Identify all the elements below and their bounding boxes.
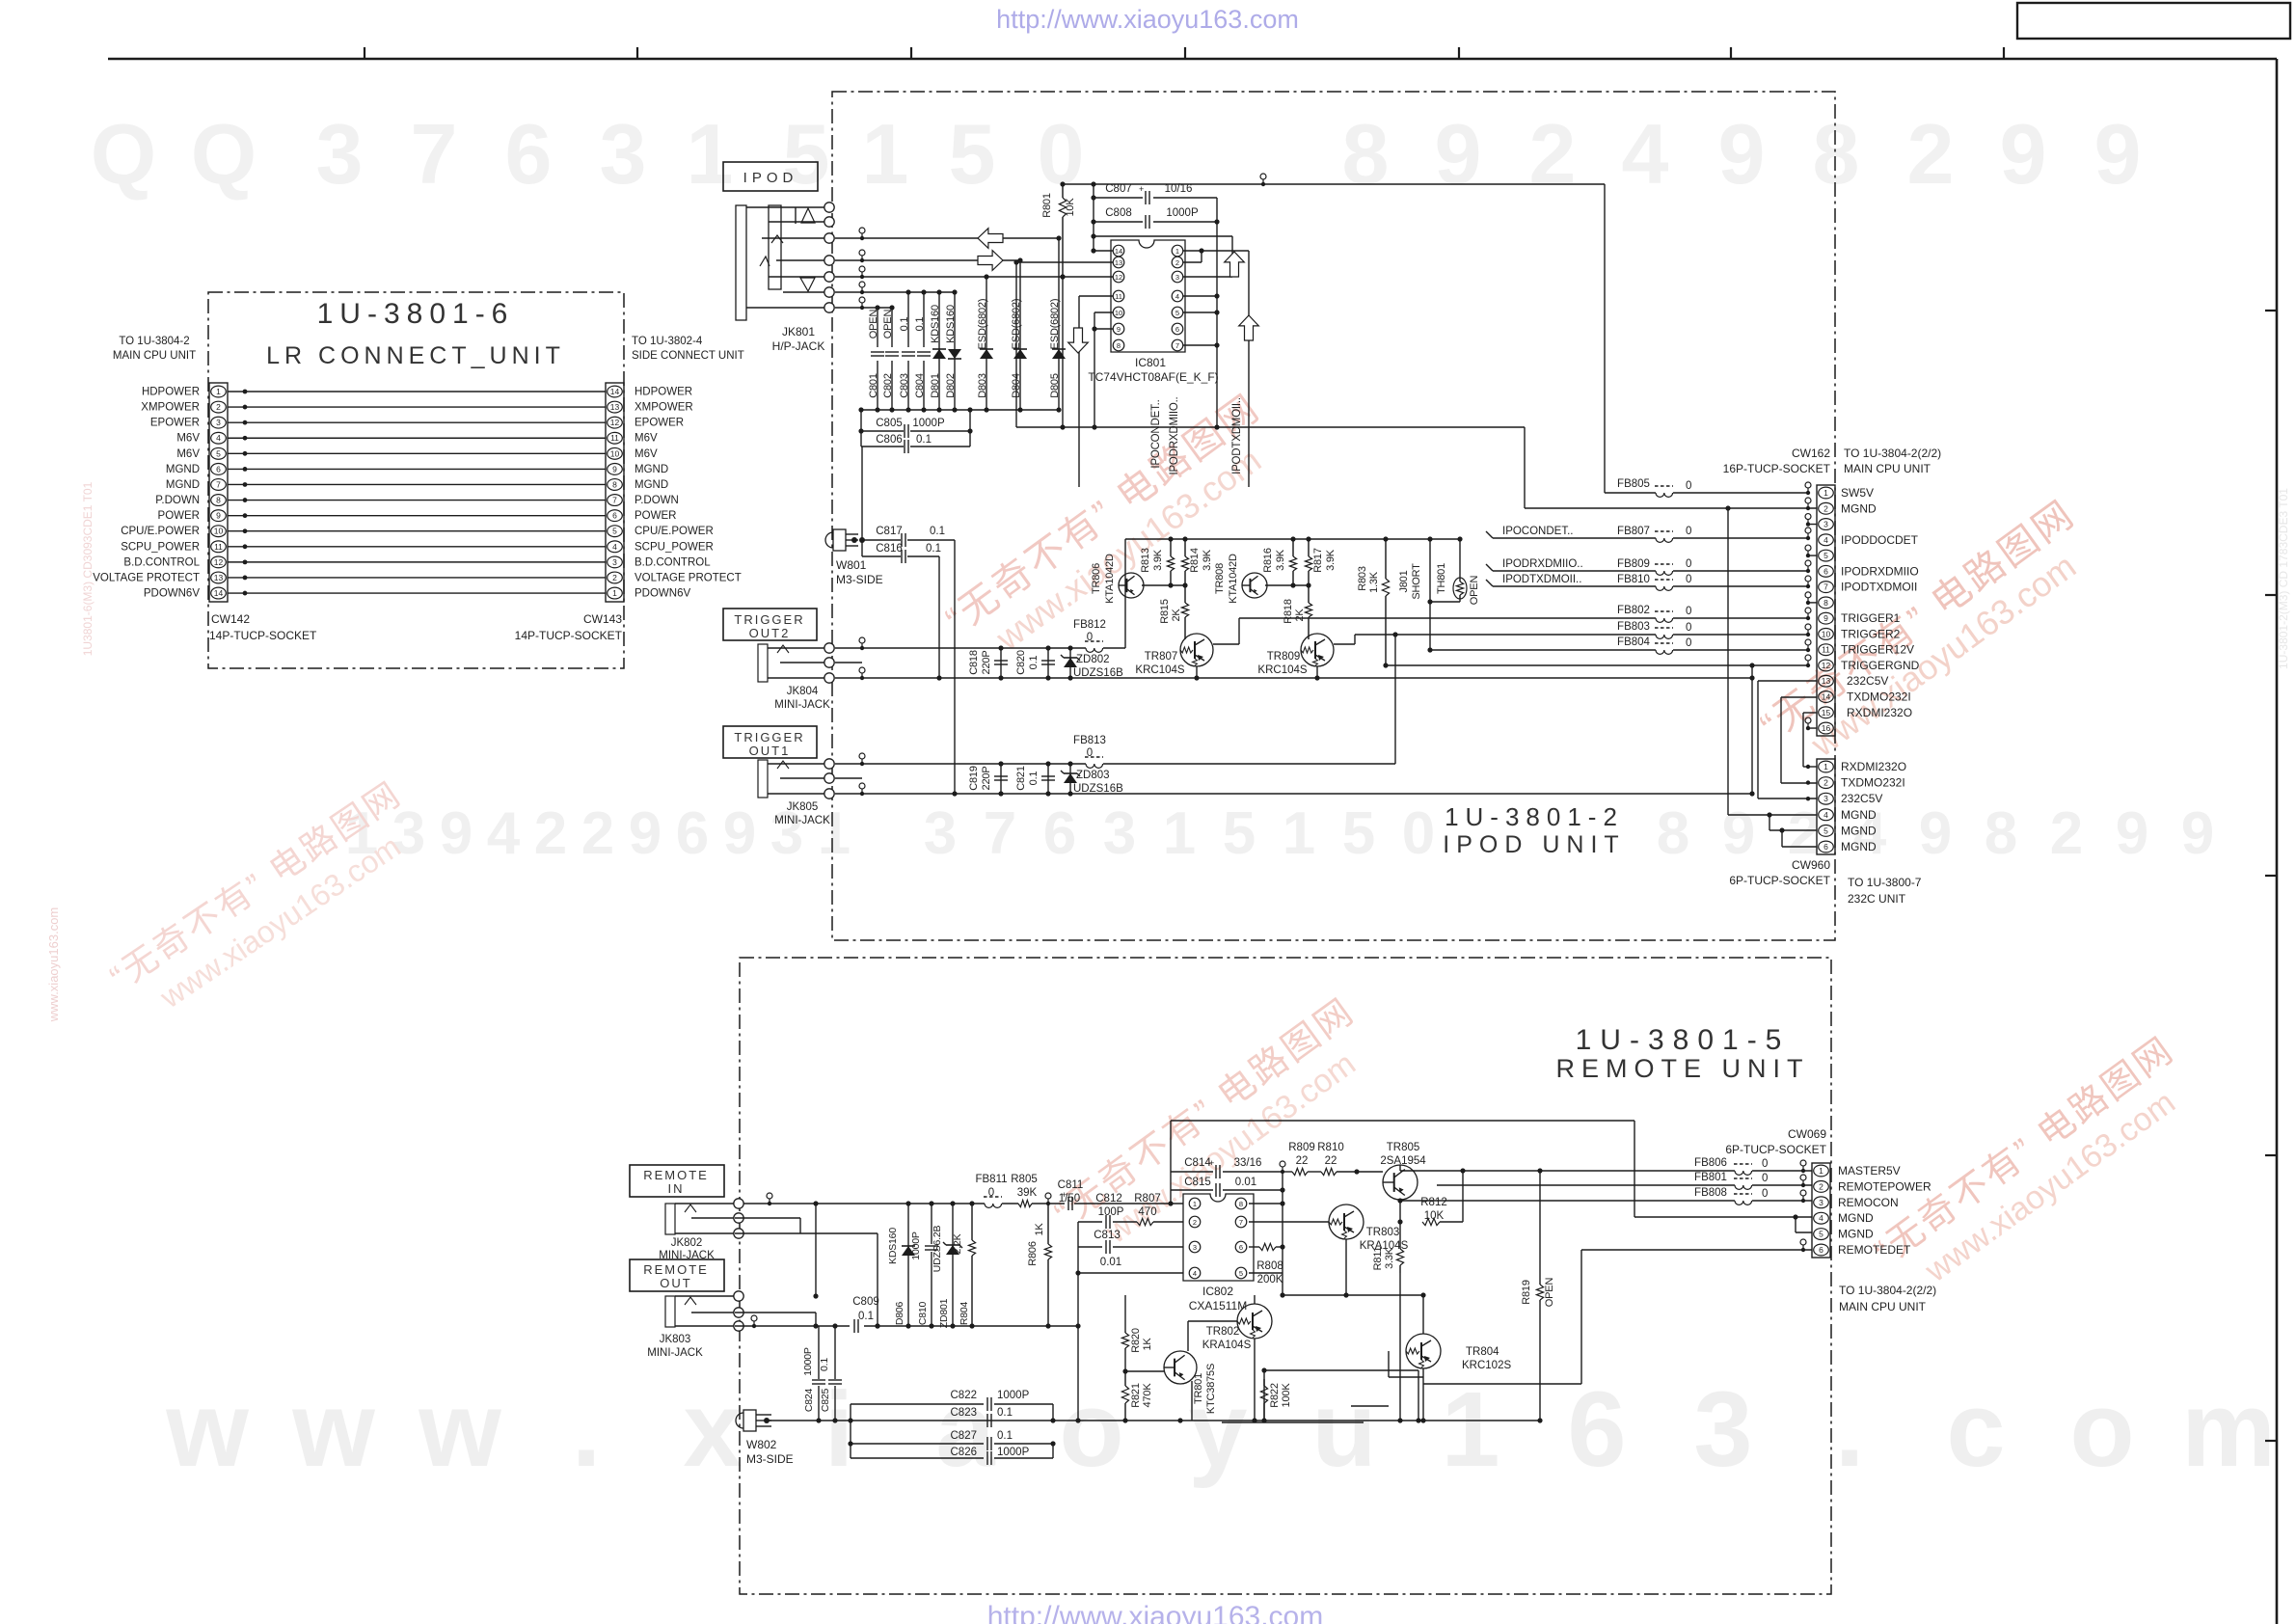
capacitor C803 0.1 (907, 292, 909, 347)
svg-text:5: 5 (1823, 551, 1828, 560)
wire MGND down to CW960 (1727, 508, 1729, 815)
svg-text:OPEN: OPEN (882, 310, 894, 339)
svg-text:1: 1 (1175, 247, 1179, 256)
wire IC801 pin10 (1094, 311, 1113, 313)
svg-text:5: 5 (1823, 826, 1828, 835)
svg-text:LR CONNECT_UNIT: LR CONNECT_UNIT (266, 342, 565, 369)
svg-text:5: 5 (1819, 1230, 1823, 1239)
svg-text:CW069: CW069 (1788, 1127, 1826, 1141)
svg-text:1000P: 1000P (912, 418, 945, 429)
wire remote out tip link (815, 1204, 817, 1296)
svg-text:11: 11 (610, 433, 619, 443)
ferrite bead FB810 (1656, 586, 1673, 590)
capacitor C814 33/16 (1170, 1172, 1172, 1204)
svg-text:10/16: 10/16 (1165, 183, 1193, 195)
pin 2 CW162 (1819, 502, 1834, 514)
diode D801 KDS160 (938, 292, 940, 347)
pin 4 CW960 (1819, 809, 1834, 821)
pin 4 IC802 (1189, 1267, 1201, 1279)
svg-text:P.DOWN: P.DOWN (155, 495, 200, 506)
svg-text:MINI-JACK: MINI-JACK (774, 815, 830, 826)
label box REMOTE OUT (630, 1259, 724, 1291)
svg-text:PDOWN6V: PDOWN6V (635, 588, 690, 600)
capacitor C806 0.1 (861, 446, 904, 447)
svg-text:TR807: TR807 (1145, 651, 1178, 663)
svg-text:5: 5 (783, 106, 830, 202)
pin 3 CW142 (211, 417, 227, 428)
pin 9 IC801 (1113, 323, 1124, 335)
svg-text:1: 1 (818, 800, 851, 867)
svg-text:6: 6 (1823, 842, 1828, 852)
svg-text:1U-3801-2: 1U-3801-2 (1445, 802, 1624, 831)
jack JK801 pin at y=287 (824, 272, 834, 282)
pin 16 CW162 (1819, 722, 1834, 734)
svg-text:ZD802: ZD802 (1076, 654, 1110, 665)
svg-text:C806: C806 (876, 434, 903, 446)
transistor TR801 KTC3875S (1164, 1351, 1197, 1384)
svg-text:3: 3 (1823, 794, 1828, 803)
svg-text:C808: C808 (1105, 207, 1132, 219)
svg-text:1: 1 (1283, 800, 1315, 867)
resistor R809 22 (1283, 1171, 1292, 1173)
pin 13 CW162 (1819, 675, 1834, 687)
wire net IPODTXDMOII vertical (1248, 251, 1250, 487)
svg-text:CXA1511M: CXA1511M (1189, 1299, 1247, 1313)
wire MGND jog pin6 (1781, 830, 1783, 847)
svg-text:1: 1 (1819, 1166, 1823, 1176)
wire IC802 pin5 row (1249, 1272, 1283, 1274)
svg-text:2: 2 (216, 402, 221, 412)
resistor R818 2K (1308, 585, 1310, 603)
svg-text:CW960: CW960 (1792, 858, 1830, 872)
svg-text:FB812: FB812 (1073, 619, 1106, 631)
jack JK801 pin at y=230 (824, 217, 834, 227)
wire TXDMO232I from pin14 (1781, 696, 1817, 698)
svg-text:MGND: MGND (166, 464, 200, 475)
wire trigger out2 ground y=703 (835, 677, 1752, 679)
svg-text:IPODRXDMIIO..: IPODRXDMIIO.. (1502, 558, 1583, 570)
jack JK801 pin at y=319 (824, 303, 834, 312)
svg-text:http://www.xiaoyu163.com: http://www.xiaoyu163.com (996, 5, 1299, 34)
pin 14 CW142 (211, 587, 227, 599)
wire TR801 base (1125, 1370, 1164, 1372)
svg-text:9: 9 (723, 800, 756, 867)
capacitor C802 OPEN (891, 308, 893, 347)
svg-text:CW143: CW143 (583, 612, 622, 626)
pin 3 CW162 (1819, 519, 1834, 530)
ferrite bead FB812 0 (1086, 648, 1103, 652)
svg-text:ZD803: ZD803 (1076, 770, 1110, 781)
svg-text:3: 3 (1193, 1243, 1197, 1252)
svg-text:16P-TUCP-SOCKET: 16P-TUCP-SOCKET (1723, 462, 1831, 475)
svg-text:C802: C802 (882, 373, 894, 398)
svg-text:0.1: 0.1 (997, 1430, 1013, 1442)
capacitor C826 1000P (851, 1457, 984, 1459)
resistor R805 39K (1018, 1200, 1032, 1206)
svg-text:6: 6 (216, 464, 221, 474)
svg-text:TRIGGER12V: TRIGGER12V (1841, 643, 1914, 657)
svg-text:100P: 100P (1098, 1206, 1124, 1218)
svg-text:4: 4 (1823, 535, 1828, 545)
label box REMOTE IN (630, 1165, 724, 1197)
svg-text:OPEN: OPEN (868, 310, 879, 339)
svg-text:0.01: 0.01 (1100, 1257, 1121, 1268)
connector CW143 14P-TUCP-SOCKET body (606, 383, 624, 602)
svg-text:0: 0 (1402, 800, 1435, 867)
wire TR804 emitter (1422, 1368, 1424, 1421)
svg-text:FB801: FB801 (1694, 1172, 1727, 1183)
svg-text:9: 9 (2000, 106, 2047, 202)
svg-text:MAIN CPU UNIT: MAIN CPU UNIT (1844, 462, 1931, 475)
pin 13 IC801 (1113, 257, 1124, 268)
svg-text:11: 11 (1115, 292, 1122, 301)
pin 3 CW143 (608, 556, 623, 568)
wire TR803 bottom to y1343 (1345, 1239, 1347, 1295)
wire right vertical x=1330 (1282, 1172, 1283, 1273)
capacitor C819 220P (1000, 764, 1002, 794)
svg-text:MGND: MGND (1841, 501, 1877, 515)
svg-text:IPODTXDMOII..: IPODTXDMOII.. (1231, 397, 1243, 474)
svg-text:1U3801-6(M3) CD3093CDE1 T01: 1U3801-6(M3) CD3093CDE1 T01 (81, 481, 95, 656)
wire LR pin row 6 (228, 468, 606, 470)
svg-text:JK804: JK804 (787, 686, 819, 697)
connector CW960 6P-TUCP-SOCKET body (1817, 759, 1835, 854)
junction dots on jack rows (984, 274, 988, 279)
capacitor C817 0.1 (862, 539, 901, 541)
pin 7 CW142 (211, 479, 227, 491)
pin 11 CW142 (211, 541, 227, 553)
svg-text:MAIN CPU UNIT: MAIN CPU UNIT (113, 350, 196, 362)
jack JK801 tip triangle (801, 208, 815, 223)
svg-text:C820: C820 (1015, 650, 1027, 675)
svg-text:0.1: 0.1 (858, 1311, 874, 1322)
svg-text:TR805: TR805 (1387, 1142, 1420, 1153)
resistor R820 1K (1124, 1295, 1126, 1331)
svg-text:1: 1 (1823, 762, 1828, 771)
svg-text:14: 14 (610, 387, 620, 396)
resistor R811 3.3K (1399, 1200, 1401, 1242)
jack JK801 pin at y=270 (824, 256, 834, 265)
svg-text:R818: R818 (1283, 599, 1294, 624)
svg-text:OPEN: OPEN (1469, 576, 1480, 606)
svg-text:MGND: MGND (1841, 824, 1877, 837)
pin 6 CW960 (1819, 841, 1834, 853)
pin 10 CW142 (211, 526, 227, 537)
svg-text:MASTER5V: MASTER5V (1838, 1164, 1901, 1177)
svg-text:TO 1U-3804-2(2/2): TO 1U-3804-2(2/2) (1844, 447, 1941, 460)
svg-text:2: 2 (1788, 800, 1821, 867)
pin 6 IC801 (1172, 323, 1183, 335)
svg-text:CW142: CW142 (211, 612, 250, 626)
arrow up right of IC801 pin1 (1225, 252, 1245, 277)
svg-text:C812: C812 (1095, 1193, 1122, 1204)
svg-text:TRIGGERGND: TRIGGERGND (1841, 659, 1920, 672)
wire MASTER5V row FB806 (1735, 1170, 1749, 1172)
jack JK801 pin at y=215 (824, 203, 834, 212)
wire C812 corner vertical x=1118 (1077, 1222, 1079, 1421)
arrow down near IC801 (1068, 328, 1089, 353)
svg-text:TXDMO232I: TXDMO232I (1841, 776, 1905, 790)
svg-text:M6V: M6V (635, 433, 658, 445)
svg-text:FB806: FB806 (1694, 1157, 1727, 1169)
svg-text:R815: R815 (1159, 599, 1171, 624)
pin 5 CW142 (211, 447, 227, 459)
svg-text:13: 13 (1822, 676, 1831, 686)
svg-text:HDPOWER: HDPOWER (635, 387, 692, 398)
wire MGND row to pin4 (1171, 1120, 1634, 1122)
svg-text:TR801: TR801 (1193, 1373, 1204, 1404)
svg-text:R820: R820 (1130, 1328, 1142, 1353)
label box IPOD (723, 162, 818, 191)
svg-text:JK801: JK801 (782, 325, 815, 338)
diode D805 ESD(6802) (1058, 238, 1060, 347)
svg-text:D803: D803 (977, 373, 988, 398)
arrow left on row 247 (978, 229, 1003, 249)
svg-text:10K: 10K (1424, 1210, 1445, 1222)
wire jack row y=287 (835, 276, 1063, 278)
svg-text:3: 3 (1103, 800, 1136, 867)
svg-text:220P: 220P (981, 651, 992, 675)
svg-text:MGND: MGND (1841, 808, 1877, 822)
svg-text:13: 13 (610, 402, 620, 412)
jack JK801 switch chevron 2 (760, 257, 770, 266)
svg-text:SCPU_POWER: SCPU_POWER (635, 541, 714, 553)
svg-text:3: 3 (924, 800, 957, 867)
jack JK801 pin at y=247 (824, 233, 834, 243)
svg-text:2: 2 (534, 800, 567, 867)
wire MASTER5V rail (1400, 1170, 1735, 1172)
svg-text:KRC102S: KRC102S (1462, 1360, 1511, 1371)
connector CW069 6P-TUCP-SOCKET body (1812, 1163, 1830, 1258)
wire jack row y=303 (835, 291, 955, 293)
svg-text:W802: W802 (746, 1438, 777, 1451)
svg-text:R813: R813 (1140, 548, 1151, 573)
pin 3 IC801 (1172, 271, 1183, 283)
svg-text:1.3K: 1.3K (1368, 571, 1380, 593)
svg-text:0.1: 0.1 (930, 526, 945, 537)
svg-text:0: 0 (1686, 637, 1691, 649)
svg-text:9: 9 (629, 800, 662, 867)
jack JK804 MINI-JACK (758, 644, 768, 682)
resistor R815 2K (1184, 585, 1186, 603)
wire SW5V route from top rail (1604, 184, 1606, 493)
wire LR pin row 14 (228, 592, 606, 594)
svg-text:7: 7 (1175, 341, 1179, 350)
svg-text:EPOWER: EPOWER (150, 418, 200, 429)
ferrite bead FB811 0 (985, 1204, 1002, 1207)
svg-text:4: 4 (1622, 106, 1669, 202)
pin 5 CW069 (1814, 1229, 1829, 1240)
wire vertical from C806 to W801 row (861, 447, 863, 540)
svg-text:2SA1954: 2SA1954 (1380, 1155, 1426, 1167)
svg-text:C816: C816 (876, 543, 903, 555)
svg-text:1000P: 1000P (997, 1390, 1030, 1401)
svg-text:XMPOWER: XMPOWER (141, 402, 200, 414)
svg-text:D805: D805 (1049, 373, 1061, 398)
svg-text:TRIGGER2: TRIGGER2 (1841, 627, 1901, 640)
pin 1 IC802 (1189, 1198, 1201, 1209)
transistor TR808 KTA1042D (1242, 573, 1267, 598)
svg-text:C809: C809 (852, 1296, 879, 1308)
svg-text:w: w (418, 1370, 501, 1489)
svg-text:7: 7 (612, 496, 617, 505)
transistor TR805 2SA1954 (1383, 1165, 1418, 1200)
svg-text:4: 4 (487, 800, 521, 867)
pin 14 CW143 (608, 386, 623, 397)
capacitor C815 0.01 (1171, 1189, 1213, 1191)
svg-text:2: 2 (1175, 258, 1179, 267)
svg-text:0: 0 (1087, 632, 1093, 643)
svg-text:7: 7 (1823, 582, 1828, 592)
svg-text:http://www.xiaoyu163.com: http://www.xiaoyu163.com (987, 1601, 1324, 1624)
capacitor C820 0.1 (1047, 648, 1049, 678)
svg-text:232C5V: 232C5V (1847, 674, 1888, 688)
wire IC801 pin9 (1094, 328, 1113, 330)
svg-text:m: m (2181, 1370, 2276, 1489)
svg-text:0: 0 (1762, 1158, 1768, 1170)
svg-text:470K: 470K (1142, 1383, 1153, 1408)
pin 11 CW162 (1819, 644, 1834, 656)
wire IC802 pin7 to TR803 (1249, 1221, 1329, 1223)
svg-text:R812: R812 (1420, 1197, 1447, 1208)
svg-text:1: 1 (612, 588, 617, 598)
wire jack row y=247 (835, 237, 1059, 239)
svg-text:TR808: TR808 (1214, 563, 1226, 594)
wire R801 vertical to ground rail (1062, 277, 1064, 427)
wire TRIGGER2 row FB803 (1355, 634, 1656, 636)
svg-text:IPOCONDET..: IPOCONDET.. (1150, 399, 1162, 468)
wire TR802 emitter (1254, 1339, 1256, 1421)
transistor TR804 KRC102S (1406, 1334, 1441, 1368)
wire LR pin row 3 (228, 421, 606, 423)
svg-text:KDS160: KDS160 (945, 305, 957, 343)
svg-text:8: 8 (1239, 1200, 1243, 1208)
pin 8 IC802 (1235, 1198, 1247, 1209)
svg-text:100K: 100K (1281, 1383, 1292, 1408)
pin 12 IC801 (1113, 271, 1124, 283)
svg-text:6: 6 (1819, 1245, 1823, 1255)
pin 8 CW162 (1819, 597, 1834, 609)
svg-text:TO 1U-3804-2(2/2): TO 1U-3804-2(2/2) (1839, 1284, 1936, 1297)
svg-text:6: 6 (1043, 800, 1076, 867)
svg-text:9: 9 (1919, 800, 1952, 867)
svg-text:6P-TUCP-SOCKET: 6P-TUCP-SOCKET (1729, 874, 1830, 887)
pin 5 CW143 (608, 526, 623, 537)
svg-text:C823: C823 (951, 1407, 978, 1419)
svg-text:4: 4 (612, 542, 617, 552)
frame top border line (108, 58, 2277, 61)
resistor R821 470K (1124, 1371, 1126, 1386)
svg-text:C814: C814 (1184, 1157, 1211, 1169)
svg-text:12: 12 (214, 557, 224, 567)
pin 6 CW142 (211, 464, 227, 475)
svg-text:KRC104S: KRC104S (1135, 664, 1184, 676)
svg-text:FB804: FB804 (1617, 636, 1650, 648)
svg-text:C821: C821 (1015, 766, 1027, 791)
label box TRIGGER OUT2 (723, 609, 817, 640)
wire net row IPOCONDET.. (1486, 531, 1493, 538)
wire IC801 pin4 (1183, 295, 1217, 297)
svg-text:R806: R806 (1027, 1241, 1039, 1266)
svg-text:B.D.CONTROL: B.D.CONTROL (635, 556, 711, 568)
svg-text:11: 11 (1822, 645, 1830, 655)
pin 3 CW069 (1814, 1197, 1829, 1208)
capacitor C821 0.1 (1047, 764, 1049, 794)
svg-text:R814: R814 (1189, 548, 1201, 573)
svg-text:1000P: 1000P (1166, 207, 1199, 219)
svg-text:C818: C818 (968, 650, 980, 675)
pin 4 CW069 (1814, 1212, 1829, 1224)
svg-text:C805: C805 (876, 418, 903, 429)
pin 5 IC802 (1235, 1267, 1247, 1279)
svg-text:u: u (1311, 1370, 1376, 1489)
svg-text:P.DOWN: P.DOWN (635, 495, 679, 506)
jack JK801 pin at y=303 (824, 287, 834, 297)
svg-text:M6V: M6V (176, 433, 200, 445)
svg-text:IN: IN (668, 1181, 685, 1196)
wire top rail y=191 (1063, 183, 1605, 185)
svg-text:ESD(6802): ESD(6802) (977, 299, 988, 350)
wire LR pin row 4 (228, 437, 606, 439)
svg-text:15: 15 (1822, 708, 1831, 717)
svg-text:TR809: TR809 (1267, 651, 1301, 663)
svg-text:MINI-JACK: MINI-JACK (647, 1347, 703, 1359)
stub pins CW162 unused (1805, 514, 1811, 520)
stub dots CW960 pins (1806, 765, 1810, 769)
wire x=1330 down to y=1343 row (1282, 1273, 1283, 1295)
svg-text:0.1: 0.1 (819, 1358, 830, 1371)
svg-text:2: 2 (581, 800, 614, 867)
pin 12 CW162 (1819, 660, 1834, 671)
svg-text:5: 5 (1223, 800, 1256, 867)
wire IC801 pin12 (1063, 276, 1113, 278)
jumper J801 SHORT (1429, 539, 1431, 650)
wire IC801 pin5 (1183, 311, 1217, 313)
svg-text:.: . (1835, 1370, 1865, 1489)
svg-text:7: 7 (411, 106, 458, 202)
wire C816 down to trigger out2 row (938, 556, 940, 678)
svg-text:Q: Q (191, 106, 257, 202)
capacitor C823 0.1 (986, 1414, 988, 1427)
svg-text:9: 9 (2116, 800, 2148, 867)
pin 9 CW162 (1819, 612, 1834, 624)
svg-text:3: 3 (316, 106, 364, 202)
svg-text:1000P: 1000P (997, 1447, 1030, 1458)
svg-text:o: o (1059, 1370, 1123, 1489)
frame right border line (2276, 59, 2279, 1624)
svg-text:i: i (824, 1370, 854, 1489)
svg-text:FB813: FB813 (1073, 735, 1106, 746)
svg-text:0: 0 (1686, 480, 1691, 492)
svg-text:0.1: 0.1 (1028, 656, 1040, 670)
svg-text:M6V: M6V (176, 448, 200, 460)
unit box 1U-3801-2 IPOD UNIT (dash-dot border) (832, 92, 1835, 940)
capacitor C818 220P (1000, 648, 1002, 678)
resistor R812 10K (1222, 1421, 1364, 1423)
svg-text:2: 2 (612, 573, 617, 582)
svg-text:+: + (1139, 184, 1144, 194)
svg-text:5: 5 (612, 527, 617, 536)
pin 2 IC802 (1189, 1216, 1201, 1228)
svg-text:16: 16 (1822, 723, 1831, 733)
resistor R803 1.3K (1385, 539, 1387, 579)
svg-text:POWER: POWER (635, 510, 676, 522)
svg-text:2: 2 (1529, 106, 1577, 202)
svg-text:10: 10 (1822, 629, 1831, 638)
connector CW142 14P-TUCP-SOCKET body (209, 383, 228, 602)
svg-text:TRIGGER: TRIGGER (734, 730, 804, 744)
wire FB813 up to trigger2 row (1394, 635, 1396, 764)
